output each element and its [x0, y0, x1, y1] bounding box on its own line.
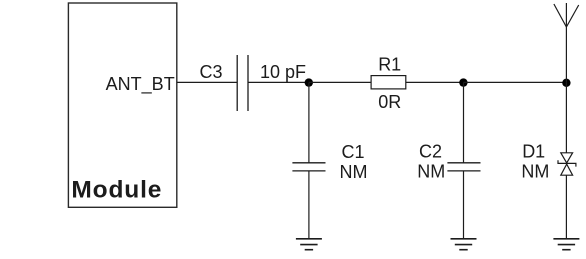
- svg-text:C1: C1: [341, 142, 364, 162]
- svg-text:10 pF: 10 pF: [260, 62, 306, 82]
- wire: node N2 down to C2 top plate: [463, 83, 465, 163]
- ground (C1): [296, 239, 322, 250]
- wire: node N1 to R1 left: [309, 81, 371, 83]
- antenna ANT1: [554, 3, 579, 83]
- resistor R1 (box): [371, 76, 406, 89]
- capacitor C3 (series, vertical plates): [237, 55, 248, 111]
- wire: module pin to C3 left plate: [177, 81, 237, 83]
- svg-text:C2: C2: [419, 142, 442, 162]
- svg-text:0R: 0R: [378, 92, 401, 112]
- svg-text:ANT_BT: ANT_BT: [106, 74, 175, 95]
- ground (C2): [451, 239, 477, 250]
- svg-text:NM: NM: [417, 162, 445, 182]
- ground (D1): [553, 239, 579, 250]
- wire: C2 bottom plate to ground: [463, 171, 465, 239]
- wire: C3 right plate to node N1: [248, 81, 309, 83]
- wire: D1 bottom to ground: [565, 175, 567, 239]
- wire: C1 bottom plate to ground: [308, 171, 310, 239]
- svg-text:D1: D1: [522, 142, 545, 162]
- capacitor C1 (shunt, horizontal plates): [292, 163, 325, 171]
- node N1 (junction dot): [305, 78, 313, 86]
- svg-text:Module: Module: [71, 177, 162, 204]
- wire: node N3 down to D1 top: [565, 83, 567, 153]
- node N3 (junction dot): [562, 79, 570, 87]
- diode D1 (bidirectional TVS): [558, 153, 576, 175]
- wire: R1 right to node N2: [406, 81, 464, 83]
- node N2 (junction dot): [459, 78, 467, 86]
- wire: node N2 to node N3: [463, 81, 566, 83]
- wire: node N1 down to C1 top plate: [308, 83, 310, 163]
- svg-text:NM: NM: [521, 162, 549, 182]
- module U (box): [68, 3, 176, 207]
- svg-text:NM: NM: [340, 162, 368, 182]
- capacitor C2 (shunt, horizontal plates): [447, 163, 480, 171]
- svg-text:C3: C3: [199, 62, 222, 82]
- svg-text:R1: R1: [378, 55, 401, 75]
